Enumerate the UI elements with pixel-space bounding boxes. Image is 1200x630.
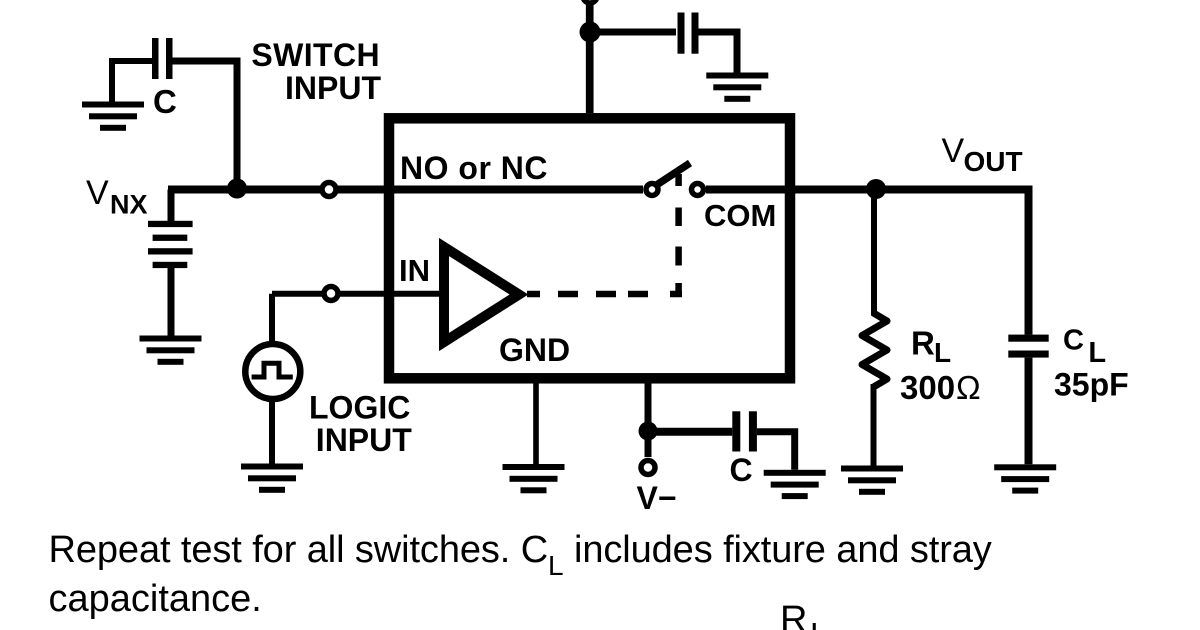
svg-text:NX: NX — [110, 190, 148, 220]
switch S1 right contact — [692, 184, 704, 196]
wire battery to ground — [168, 266, 175, 336]
label VNX — [86, 174, 148, 220]
wire V- bypass cap to ground — [757, 432, 795, 470]
dashed control line — [675, 174, 682, 294]
wire V+ to bypass cap — [590, 29, 676, 36]
resistor RL — [862, 313, 887, 387]
node VOUT junction dot — [866, 179, 886, 199]
svg-text:R: R — [780, 599, 807, 630]
ground (below C) — [82, 102, 144, 131]
svg-text:GND: GND — [499, 332, 570, 368]
terminal V- — [641, 461, 655, 475]
wire logic input run — [272, 291, 440, 297]
node VNX junction dot — [227, 179, 247, 199]
svg-text:V: V — [942, 132, 965, 170]
label VOUT — [942, 132, 1023, 177]
svg-text:R: R — [911, 324, 935, 361]
wire bypass cap to ground — [699, 32, 738, 73]
capacitor CL — [1008, 335, 1048, 358]
label RL — [911, 324, 951, 367]
ground (below CL) — [994, 464, 1056, 493]
wire V+ pin — [586, 0, 594, 113]
wire NO/NC input run — [168, 186, 643, 194]
ground (GND pin) — [503, 464, 565, 493]
ground (V- bypass) — [764, 470, 826, 499]
wire from C left plate to ground — [112, 61, 152, 102]
wire pulse source stub — [269, 294, 275, 341]
capacitor C (V- bypass) — [732, 411, 757, 451]
battery VNX source — [148, 221, 193, 268]
svg-text:C: C — [1063, 325, 1084, 357]
svg-text:INPUT: INPUT — [285, 70, 381, 106]
ground (below pulse source) — [241, 464, 303, 493]
label 300 ohm — [900, 369, 981, 406]
terminal (logic input test point) — [324, 287, 338, 301]
wire CL bottom lead — [1025, 358, 1033, 465]
svg-text:NO or NC: NO or NC — [400, 150, 548, 186]
pulse generator V1 — [245, 344, 300, 399]
svg-text:COM: COM — [704, 198, 776, 233]
wire RL bottom lead — [871, 384, 877, 466]
svg-text:L: L — [934, 337, 951, 368]
wire RL top lead — [871, 190, 877, 316]
svg-text:C: C — [730, 452, 753, 488]
DUT box U1 — [389, 118, 790, 378]
wire V- to bypass cap — [648, 428, 732, 436]
svg-text:IN: IN — [399, 253, 430, 288]
svg-text:35pF: 35pF — [1054, 367, 1129, 403]
svg-text:SWITCH: SWITCH — [251, 37, 380, 73]
switch S1 blade — [657, 163, 691, 185]
svg-text:INPUT: INPUT — [316, 422, 412, 458]
ground (V+ bypass) — [706, 73, 768, 102]
svg-text:V−: V− — [637, 480, 677, 516]
wire pulse source to ground — [269, 399, 275, 464]
capacitor (V+ bypass) — [678, 13, 699, 54]
svg-text:L: L — [1088, 337, 1106, 369]
switch S1 left contact — [646, 184, 658, 196]
ground (below battery) — [140, 336, 202, 365]
svg-text:Ω: Ω — [956, 369, 981, 406]
svg-text:V: V — [86, 174, 109, 212]
terminal V+ — [583, 0, 597, 3]
op-amp buffer A1 — [444, 247, 519, 342]
svg-text:L: L — [810, 616, 828, 630]
ground (below RL) — [841, 466, 903, 495]
partial label RL (cropped) — [780, 599, 828, 630]
wire COM output run — [706, 190, 1029, 335]
label CL — [1063, 325, 1106, 369]
svg-text:capacitance.: capacitance. — [49, 578, 262, 620]
svg-text:OUT: OUT — [964, 146, 1023, 177]
svg-text:300: 300 — [900, 369, 955, 406]
svg-text:C: C — [153, 83, 177, 120]
capacitor C (switch input bypass) — [152, 38, 173, 79]
wire battery stub — [168, 190, 175, 222]
pulse waveform glyph — [252, 363, 293, 377]
node V- junction dot — [639, 422, 658, 441]
terminal (switch input test point) — [322, 183, 336, 197]
svg-text:LOGIC: LOGIC — [309, 389, 410, 425]
wire from C right plate down to node VNX — [173, 61, 238, 190]
wire GND pin — [533, 383, 539, 464]
wire V- pin — [645, 383, 652, 457]
node V+ junction dot — [580, 22, 601, 43]
